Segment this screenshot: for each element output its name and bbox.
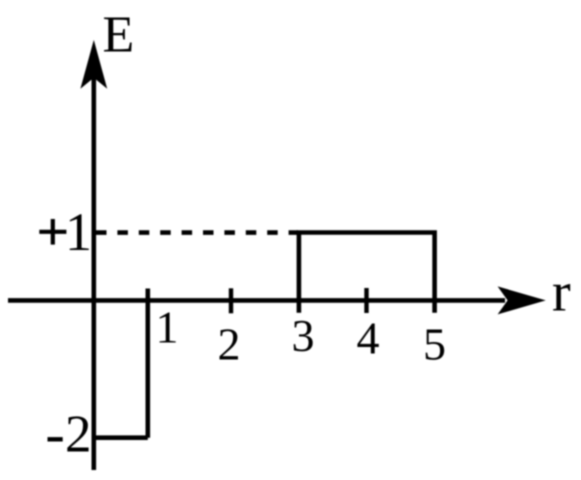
svg-text:3: 3 [292,310,315,361]
svg-text:1: 1 [65,202,92,262]
svg-text:5: 5 [423,319,446,370]
svg-text:1: 1 [156,302,179,353]
svg-text:2: 2 [65,406,92,464]
svg-text:E: E [103,7,135,64]
svg-text:2: 2 [218,319,241,370]
svg-text:r: r [552,262,571,324]
svg-text:4: 4 [357,313,380,364]
